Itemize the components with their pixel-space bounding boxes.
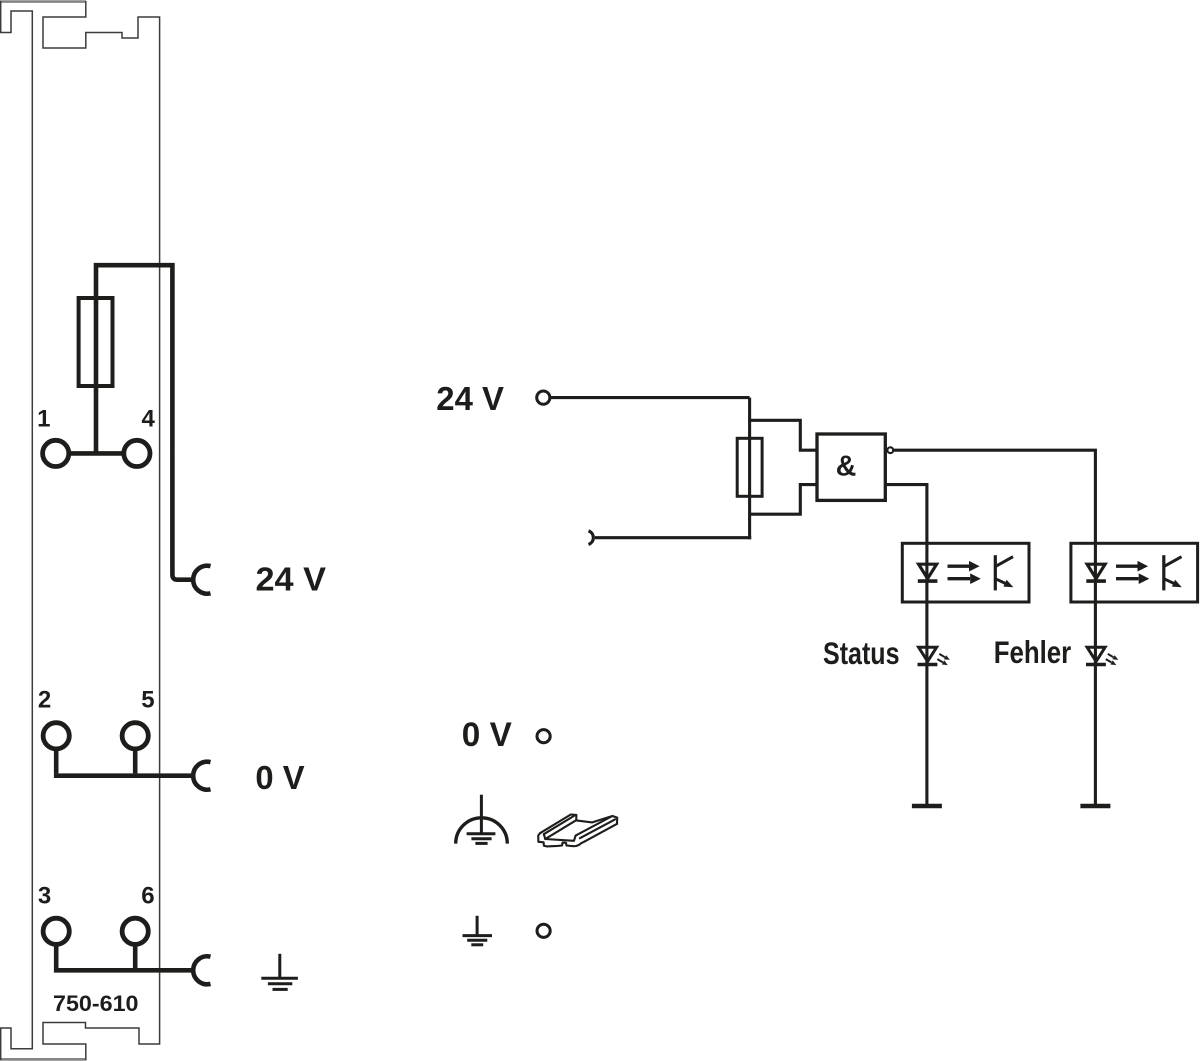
wire stub terminal 6 bbox=[133, 944, 138, 969]
DIN rail icon bbox=[538, 815, 617, 847]
optocoupler U2 box bbox=[902, 543, 1029, 602]
earth clamp contact arc bbox=[193, 956, 210, 984]
wire through U3 and Fehler LED to ground bbox=[1094, 543, 1097, 804]
terminal circle 2 bbox=[43, 723, 69, 749]
wire 24V feed bbox=[550, 396, 749, 399]
terminal circle 1 bbox=[43, 440, 69, 466]
wire main vertical through fuse bbox=[748, 398, 751, 540]
terminal circle 6 bbox=[122, 918, 148, 944]
svg-text:Fehler: Fehler bbox=[994, 634, 1071, 670]
inversion bubble bbox=[887, 447, 893, 453]
module housing right profile bbox=[43, 1, 160, 1060]
optocoupler U2 phototransistor bbox=[995, 555, 1013, 590]
module top rail bar (gray) bbox=[0, 0, 86, 3]
terminal point earth bbox=[537, 924, 550, 937]
ground bar (Status) bbox=[912, 804, 942, 809]
svg-text:24 V: 24 V bbox=[436, 380, 504, 417]
fuse F1 (module) bbox=[79, 298, 113, 386]
wire through U2 and Status LED to ground bbox=[925, 543, 928, 804]
terminal point 24V bbox=[537, 391, 550, 404]
terminal circle 5 bbox=[122, 723, 148, 749]
terminal circle 3 bbox=[43, 918, 69, 944]
wire stub terminal 3 bbox=[54, 944, 59, 969]
svg-text:3: 3 bbox=[38, 883, 51, 910]
svg-text:24 V: 24 V bbox=[256, 561, 327, 598]
optocoupler U2 LED bbox=[918, 564, 938, 581]
earth symbol (field) bbox=[463, 916, 493, 945]
svg-text:4: 4 bbox=[142, 406, 156, 433]
module bottom rail bar (gray) bbox=[0, 1058, 87, 1061]
module housing left profile bbox=[1, 1, 33, 1060]
24V clamp contact arc bbox=[193, 566, 210, 594]
wire return bottom bbox=[595, 536, 751, 539]
wire stub terminal 5 bbox=[133, 748, 138, 773]
optocoupler U3 light arrows bbox=[1116, 561, 1149, 584]
wire AND gate lower input bbox=[750, 485, 817, 515]
svg-text:0 V: 0 V bbox=[462, 716, 512, 754]
optocoupler U3 LED bbox=[1086, 564, 1106, 581]
svg-text:0 V: 0 V bbox=[255, 759, 304, 796]
wire: fuse to 24V clamp contact bbox=[96, 265, 194, 580]
earth ground symbol (module) bbox=[261, 954, 298, 990]
terminal point 0V bbox=[537, 730, 550, 743]
svg-text:6: 6 bbox=[141, 883, 154, 910]
svg-text:&: & bbox=[836, 450, 857, 482]
terminal circle 4 bbox=[124, 440, 150, 466]
terminal bus 3-6 (earth) bbox=[54, 968, 194, 973]
wire inverted output to U3 bbox=[894, 450, 1096, 543]
LED Status emission arrows bbox=[937, 654, 950, 665]
fuse F2 (field) bbox=[737, 438, 762, 496]
LED Fehler emission arrows bbox=[1106, 654, 1119, 665]
svg-text:Status: Status bbox=[823, 635, 900, 671]
terminal bus 2-5 (0V) bbox=[54, 773, 194, 778]
optocoupler U3 box bbox=[1071, 543, 1198, 602]
wire output to U2 bbox=[885, 485, 927, 544]
LED Fehler indicator bbox=[1086, 647, 1106, 664]
svg-text:750-610: 750-610 bbox=[53, 991, 139, 1016]
wire AND gate upper input bbox=[750, 420, 817, 450]
svg-text:2: 2 bbox=[38, 686, 51, 713]
jumper contact arc (return) bbox=[589, 531, 594, 545]
ground bar (Fehler) bbox=[1080, 804, 1110, 809]
wire stub terminal 2 bbox=[54, 748, 59, 773]
svg-text:1: 1 bbox=[37, 406, 50, 433]
svg-text:5: 5 bbox=[141, 686, 154, 713]
optocoupler U2 light arrows bbox=[948, 561, 981, 584]
functional earth symbol bbox=[456, 795, 508, 844]
terminal bus 1-4 bbox=[68, 451, 125, 456]
LED Status indicator bbox=[918, 647, 938, 664]
optocoupler U3 phototransistor bbox=[1164, 555, 1182, 590]
AND gate U1 bbox=[817, 434, 885, 500]
0V clamp contact arc bbox=[193, 762, 210, 790]
